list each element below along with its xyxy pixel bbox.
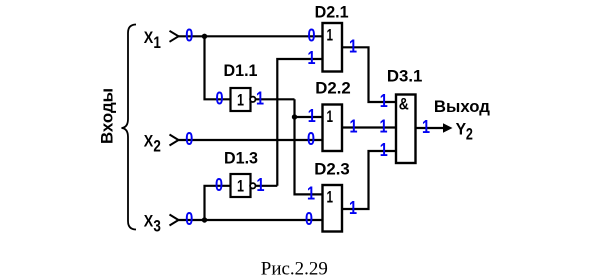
svg-text:0: 0 bbox=[185, 129, 193, 149]
wire X1 row bbox=[179, 35, 323, 37]
node junction X1 bbox=[202, 34, 207, 39]
svg-text:0: 0 bbox=[185, 209, 193, 229]
wire D2.2 output to D3.1 input2 bbox=[342, 126, 396, 128]
AND gate D3.1 box bbox=[396, 95, 416, 164]
inverter D1.1 box bbox=[231, 88, 251, 111]
wire D2.3 output to D3.1 input3 bbox=[342, 151, 396, 209]
svg-text:X: X bbox=[144, 133, 154, 151]
node junction X3 bbox=[202, 217, 207, 222]
svg-text:D1.3: D1.3 bbox=[224, 150, 258, 168]
svg-text:D3.1: D3.1 bbox=[387, 68, 423, 86]
svg-text:1: 1 bbox=[380, 91, 388, 111]
wire D3.1 output bbox=[416, 127, 447, 129]
input chevron X2 bbox=[170, 135, 179, 146]
svg-text:1: 1 bbox=[153, 34, 161, 52]
OR gate D2.3 box bbox=[323, 185, 343, 232]
svg-text:1: 1 bbox=[237, 178, 244, 196]
brace inputs bbox=[122, 25, 137, 230]
svg-text:D1.1: D1.1 bbox=[224, 62, 258, 80]
inverter D1.3 box bbox=[231, 174, 251, 197]
svg-text:1: 1 bbox=[327, 27, 334, 45]
node junction D2.2 in1 bbox=[292, 114, 297, 119]
svg-text:Y: Y bbox=[456, 121, 467, 139]
wire X3 to D1.3 input bbox=[205, 186, 231, 220]
svg-text:2: 2 bbox=[466, 126, 473, 144]
OR gate D2.2 box bbox=[323, 105, 343, 152]
wire vertical V1 (D1.3 out to D2.1 in2) bbox=[277, 59, 322, 186]
wire vertical V2 (D1.1 out to D2.3 in1) bbox=[295, 99, 323, 194]
svg-text:1: 1 bbox=[349, 37, 357, 57]
inverter D1.1 bubble bbox=[250, 97, 255, 102]
svg-text:X: X bbox=[144, 213, 154, 231]
svg-text:0: 0 bbox=[216, 89, 224, 109]
svg-text:&: & bbox=[399, 96, 409, 114]
wire D1.3 output to vertical V1 bbox=[251, 185, 278, 187]
svg-text:1: 1 bbox=[308, 106, 316, 126]
svg-text:1: 1 bbox=[380, 117, 388, 137]
wire X2 row to D2.2 input2 bbox=[179, 139, 323, 141]
svg-text:3: 3 bbox=[153, 218, 161, 236]
wire X3 row to D2.3 input2 bbox=[179, 219, 323, 221]
input chevron X1 bbox=[170, 31, 179, 42]
svg-text:D2.3: D2.3 bbox=[314, 161, 350, 179]
svg-text:D2.1: D2.1 bbox=[315, 4, 349, 22]
svg-text:Входы: Входы bbox=[99, 88, 117, 144]
input chevron X3 bbox=[170, 215, 179, 226]
svg-text:1: 1 bbox=[256, 89, 264, 109]
svg-text:0: 0 bbox=[305, 209, 313, 229]
svg-text:1: 1 bbox=[327, 189, 334, 207]
svg-text:0: 0 bbox=[307, 129, 315, 149]
svg-text:D2.2: D2.2 bbox=[315, 80, 351, 98]
svg-text:2: 2 bbox=[153, 138, 161, 156]
wire X1 to D1.1 input bbox=[205, 36, 231, 99]
svg-text:1: 1 bbox=[349, 198, 357, 218]
svg-text:1: 1 bbox=[308, 48, 316, 68]
svg-text:Рис.2.29: Рис.2.29 bbox=[261, 260, 328, 280]
arrowhead output bbox=[443, 123, 453, 132]
svg-text:1: 1 bbox=[350, 117, 358, 137]
svg-text:1: 1 bbox=[422, 117, 430, 137]
svg-text:1: 1 bbox=[327, 108, 334, 126]
wire D2.1 output to D3.1 input1 bbox=[342, 47, 396, 102]
svg-text:X: X bbox=[144, 29, 154, 47]
svg-text:Выход: Выход bbox=[434, 98, 491, 116]
OR gate D2.1 box bbox=[323, 23, 343, 72]
wire D2.2 input1 bbox=[295, 116, 323, 118]
svg-text:1: 1 bbox=[237, 92, 244, 110]
wire D1.1 output to vertical V2 bbox=[251, 98, 295, 100]
svg-text:1: 1 bbox=[257, 175, 265, 195]
svg-text:0: 0 bbox=[185, 26, 193, 46]
svg-text:1: 1 bbox=[380, 140, 388, 160]
svg-text:1: 1 bbox=[307, 184, 315, 204]
inverter D1.3 bubble bbox=[250, 183, 255, 188]
svg-text:0: 0 bbox=[215, 175, 223, 195]
svg-text:0: 0 bbox=[308, 26, 316, 46]
